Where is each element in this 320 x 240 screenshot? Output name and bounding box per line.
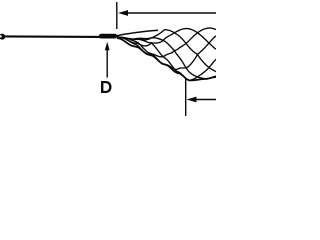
mesh strand 4	[117, 37, 216, 80]
ferrule (diameter D)	[99, 34, 117, 39]
mesh strand 2	[117, 30, 216, 72]
mesh strand 3	[117, 37, 216, 79]
mesh bottom outline	[117, 38, 216, 80]
pulling eye hole	[0, 35, 2, 37]
bottom dimension arrow line	[194, 99, 216, 101]
mesh strand 6	[117, 28, 216, 57]
top dimension arrowhead	[118, 10, 128, 16]
label D	[101, 81, 112, 93]
pulling eye	[0, 34, 5, 40]
mesh top outline	[117, 30, 159, 36]
leader arrowhead pointing at ferrule	[105, 42, 110, 50]
pulling wire/cable	[5, 35, 101, 38]
leader line for D	[106, 50, 108, 78]
bottom dimension arrowhead	[187, 97, 197, 103]
top dimension extension line	[116, 2, 118, 29]
mesh strand 5	[117, 36, 216, 70]
bottom dimension extension line	[185, 79, 187, 116]
top dimension arrow line	[126, 12, 216, 14]
mesh strand 1	[117, 29, 216, 50]
